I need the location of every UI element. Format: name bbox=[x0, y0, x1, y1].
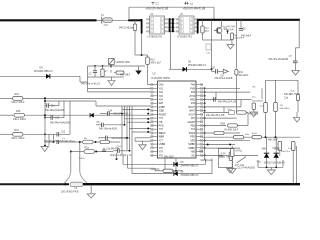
wire C10 right bbox=[49, 105, 60, 107]
wire D5 feed corner bbox=[122, 155, 124, 164]
node left bus dot2 bbox=[44, 114, 46, 116]
svg-text:940-4Pa-0%A&S/B: 940-4Pa-0%A&S/B bbox=[269, 58, 289, 61]
resistor R17 bbox=[163, 169, 173, 172]
node R13 bus dot bbox=[235, 19, 237, 21]
pin U2 left 16 bbox=[151, 139, 158, 141]
svg-text:Y0a: Y0a bbox=[257, 161, 262, 163]
shunt reference U4 LM4040 bbox=[109, 59, 115, 67]
pin U2 right 3 bbox=[196, 91, 203, 93]
svg-text:2: 2 bbox=[181, 23, 182, 25]
wire bold feed into U1 pins bbox=[129, 19, 142, 21]
svg-text:Y76: Y76 bbox=[159, 129, 164, 131]
resistor R25 far right bbox=[296, 95, 299, 101]
wire R23 down to bus bbox=[279, 151, 281, 157]
svg-text:C1a: C1a bbox=[199, 150, 204, 152]
svg-text:6: 6 bbox=[190, 27, 191, 29]
svg-text:4(L.5/B): 4(L.5/B) bbox=[223, 156, 231, 158]
wire C11 right bbox=[53, 117, 64, 119]
pin U2 left 9 bbox=[151, 113, 158, 115]
wire D6 feed corner bbox=[131, 158, 133, 174]
svg-text:1: 1 bbox=[151, 19, 152, 21]
svg-text:+5V0 (P) 494-R.J/B: +5V0 (P) 494-R.J/B bbox=[183, 6, 206, 10]
node left bus dot3 bbox=[44, 117, 46, 119]
wire middle bracket bbox=[127, 156, 129, 168]
wire +24V right thick bus bbox=[197, 19, 300, 21]
wire D5 row bbox=[123, 163, 173, 165]
svg-text:940-4Pa-0%A&S/B: 940-4Pa-0%A&S/B bbox=[45, 109, 65, 112]
svg-text:Y78: Y78 bbox=[159, 148, 164, 150]
pin U2 left 2 bbox=[151, 87, 158, 89]
wire opto1 drop A bbox=[134, 31, 136, 56]
diode D3 bbox=[183, 67, 187, 72]
diode D9 zener up bbox=[266, 150, 268, 153]
wire row to IC pin 14 bbox=[138, 140, 151, 142]
svg-text:940-4Pa-0-A&S/B: 940-4Pa-0-A&S/B bbox=[215, 77, 233, 80]
wire drop to C6 bbox=[240, 20, 242, 28]
pin U2 right 13 bbox=[196, 128, 203, 130]
svg-text:Ra 940-1.8LF: Ra 940-1.8LF bbox=[225, 129, 239, 131]
svg-text:1L(B): 1L(B) bbox=[221, 153, 226, 155]
pin U2 left 17 bbox=[151, 143, 158, 145]
wire right bus vertical a bbox=[204, 88, 206, 160]
svg-text:940-16B.a: 940-16B.a bbox=[280, 108, 291, 110]
ground right mid bbox=[250, 112, 257, 117]
svg-text:YB0: YB0 bbox=[191, 152, 196, 154]
pin U2 left 11 bbox=[151, 121, 158, 123]
pin U2 left 13 bbox=[151, 128, 158, 130]
pin U2 left 12 bbox=[151, 125, 158, 127]
svg-text:WBUF: WBUF bbox=[159, 133, 166, 135]
pin U2 left 7 bbox=[151, 106, 158, 108]
node dot opto row 3 bbox=[169, 26, 171, 28]
wire fuse to node bbox=[113, 19, 129, 21]
ground snubber bbox=[227, 168, 234, 173]
wire right row 9 bbox=[203, 136, 300, 138]
pin U2 right 9 bbox=[196, 113, 203, 115]
wire main drop to C8 net bbox=[211, 20, 213, 70]
resistor R8 bbox=[116, 71, 124, 74]
wire C7 to ground bbox=[295, 63, 297, 71]
wire right row 8 bbox=[203, 132, 240, 134]
wire snubber box bbox=[218, 149, 232, 168]
node junction column into IC bbox=[147, 109, 149, 111]
wire battery negative thick bus bbox=[83, 183, 300, 185]
svg-text:940-16B.a: 940-16B.a bbox=[248, 114, 259, 116]
diode D8 clamp bbox=[90, 113, 94, 118]
diode D7 small bbox=[223, 26, 236, 34]
wire mid vertical a bbox=[121, 106, 123, 155]
svg-text:940-HMLF: 940-HMLF bbox=[290, 93, 301, 95]
wire 24V input row from left bbox=[0, 75, 46, 77]
svg-text:PB1: PB1 bbox=[191, 126, 196, 128]
svg-text:(Y2B): (Y2B) bbox=[274, 148, 280, 150]
pin U2 right 14 bbox=[196, 132, 203, 134]
node row B start dot bbox=[70, 151, 72, 153]
node vref rail dot 1 bbox=[94, 65, 96, 67]
capacitor C2 (top tiny) bbox=[152, 2, 160, 5]
wire right row 5 bbox=[203, 112, 229, 114]
svg-text:R10: R10 bbox=[151, 59, 156, 61]
capacitor C9 bbox=[214, 97, 216, 101]
wire R26 top bbox=[231, 146, 233, 149]
resistor R11 vertical bbox=[252, 103, 255, 110]
svg-text:ALERT: ALERT bbox=[188, 121, 196, 124]
resistor R15 bbox=[14, 113, 25, 117]
pin U2 right 1 bbox=[196, 84, 203, 86]
wire R18 right bbox=[238, 125, 249, 127]
svg-text:YT0: YT0 bbox=[159, 155, 164, 157]
wire D6 right run bbox=[178, 173, 212, 175]
capacitor C5 bbox=[96, 124, 102, 126]
wire ladder stub right bbox=[45, 141, 54, 143]
wire RX2 run bbox=[23, 133, 45, 135]
wire right row 2 bbox=[203, 91, 250, 93]
svg-text:SMBD: SMBD bbox=[188, 144, 195, 146]
node RX0 tap bbox=[44, 97, 46, 99]
wire far top box rail bbox=[266, 79, 299, 81]
capacitor C6 bbox=[239, 29, 243, 31]
svg-text:940-1Pa mi 4L1.8: 940-1Pa mi 4L1.8 bbox=[81, 83, 101, 86]
svg-text:3: 3 bbox=[181, 27, 182, 29]
svg-text:940-1.8LF: 940-1.8LF bbox=[151, 63, 162, 65]
wire row to IC pin 9 bbox=[125, 118, 151, 120]
node bottom-left tap bbox=[116, 158, 118, 160]
wire right row 7 bbox=[203, 125, 226, 127]
pin U2 right 11 bbox=[196, 121, 203, 123]
svg-text:Da (40)(7)(B): Da (40)(7)(B) bbox=[223, 26, 236, 28]
svg-text:(Aa): (Aa) bbox=[205, 29, 209, 32]
wire R25 down bbox=[297, 101, 299, 106]
wire ladder tail b bbox=[53, 134, 55, 142]
svg-text:T.B: T.B bbox=[280, 105, 284, 107]
node junction column A between optos bbox=[169, 18, 171, 32]
wire R24 down to bus bbox=[292, 151, 294, 184]
wire vref bottom rail bbox=[88, 76, 116, 78]
svg-text:V8B: V8B bbox=[262, 148, 267, 150]
capacitor C19 box bbox=[229, 111, 235, 115]
node riser dot bbox=[213, 19, 215, 21]
node R17 dot bbox=[175, 170, 177, 172]
resistor R4 row A second bbox=[100, 140, 110, 143]
svg-text:R1B: R1B bbox=[221, 123, 226, 125]
wire row to IC pin 11 bbox=[130, 128, 151, 130]
pin U2 right 8 bbox=[196, 110, 203, 112]
svg-text:RXD2: RXD2 bbox=[189, 133, 196, 135]
wire vref to IC pin row bbox=[88, 88, 151, 90]
wire R6 top bbox=[231, 39, 233, 42]
svg-text:4(a): 4(a) bbox=[205, 28, 209, 30]
wire R5 to Q1 node bbox=[202, 33, 204, 40]
svg-text:BOUT: BOUT bbox=[189, 107, 196, 109]
svg-text:940-4Pa-46-A,3/B: 940-4Pa-46-A,3/B bbox=[206, 114, 225, 117]
wire Q1 emitter to D7 bbox=[221, 34, 223, 40]
pin U2 right 2 bbox=[196, 87, 203, 89]
wire diode pair bottom rail bbox=[258, 166, 283, 168]
wire mid vertical b bbox=[124, 106, 126, 125]
svg-text:200-JR BG-F4(T): 200-JR BG-F4(T) bbox=[61, 191, 79, 193]
svg-text:2A/T: 2A/T bbox=[104, 24, 109, 27]
svg-text:AXBP: AXBP bbox=[159, 106, 166, 109]
svg-text:7: 7 bbox=[190, 23, 191, 25]
capacitor C18 row A bbox=[57, 140, 59, 144]
wire left bus vertical bbox=[44, 98, 46, 145]
svg-text:RXD: RXD bbox=[159, 126, 164, 128]
wire U2 bottom drop a bbox=[164, 158, 166, 171]
label aux box C7a bbox=[206, 44, 211, 50]
pin U2 right 7 bbox=[196, 106, 203, 108]
svg-text:940-a8LF: 940-a8LF bbox=[239, 75, 249, 77]
pin U2 right 20 bbox=[196, 154, 203, 156]
pin U2 right 12 bbox=[196, 125, 203, 127]
wire inter-opto row 2 bbox=[169, 22, 176, 24]
svg-text:8: 8 bbox=[161, 19, 162, 21]
resistor R21 vertical far bbox=[274, 103, 278, 112]
pin U2 left 18 bbox=[151, 147, 158, 149]
pin U2 left 3 bbox=[151, 91, 158, 93]
resistor R9 hung from bus bbox=[134, 20, 136, 24]
pin U2 right 16 bbox=[196, 139, 203, 141]
net arrow VCC out bbox=[223, 69, 228, 73]
node vref rail dot 3 bbox=[110, 65, 112, 67]
wire opto junction drop to D3 row bbox=[170, 32, 172, 69]
wire mid rail riser bbox=[95, 101, 97, 106]
op-amp U1 optocoupler LTV826 bbox=[146, 16, 168, 34]
svg-text:NC: NC bbox=[192, 155, 196, 157]
svg-text:Y01: Y01 bbox=[159, 88, 164, 90]
svg-text:C14: C14 bbox=[108, 110, 113, 112]
svg-text:SPD: SPD bbox=[190, 140, 195, 142]
resistor R26 vertical bbox=[230, 149, 234, 157]
svg-text:940-a: 940-a bbox=[79, 158, 85, 160]
wire U3 pin junction bar to right bus bbox=[197, 19, 199, 34]
svg-text:PVB: PVB bbox=[190, 88, 195, 90]
svg-text:C1a: C1a bbox=[284, 97, 289, 99]
resistor R19 in box bbox=[229, 152, 232, 161]
wire Q1 collector up bbox=[221, 20, 223, 27]
wire D5 right run bbox=[178, 163, 206, 165]
svg-text:940-1KLF: 940-1KLF bbox=[164, 156, 175, 158]
node junction column right of U2 bbox=[204, 87, 206, 89]
resistor R10 bbox=[142, 54, 148, 56]
svg-text:940-1Pa-4a-A2/B: 940-1Pa-4a-A2/B bbox=[99, 128, 117, 131]
svg-text:/CBE: /CBE bbox=[159, 111, 165, 113]
wire far verticals bbox=[265, 113, 267, 138]
node stem dot bbox=[79, 141, 81, 143]
ground diode pair arrow bbox=[267, 170, 275, 175]
svg-text:/YB: /YB bbox=[159, 122, 163, 124]
node junction bus tap C6 bbox=[240, 19, 242, 21]
node D3 net dot bbox=[211, 68, 213, 70]
capacitor C17 bbox=[103, 148, 105, 151]
wire ladder top rail bbox=[45, 100, 96, 102]
pin U2 right 10 bbox=[196, 117, 203, 119]
svg-text:R13: R13 bbox=[239, 72, 244, 74]
wire Q1 base row bbox=[203, 39, 218, 41]
ground vref bottom arrow bbox=[108, 81, 115, 86]
wire RX1 run bbox=[25, 114, 90, 116]
svg-text:C12: C12 bbox=[61, 132, 66, 134]
svg-text:940-4Pa-4%A&S/B: 940-4Pa-4%A&S/B bbox=[50, 121, 70, 124]
svg-text:940-1KLF: 940-1KLF bbox=[268, 140, 279, 142]
wire C5 right bbox=[103, 124, 124, 126]
wire U1 pin junction bar bbox=[141, 19, 143, 34]
node ladder top dot bbox=[44, 100, 46, 102]
svg-text:5: 5 bbox=[190, 31, 191, 33]
resistor R23 vertical bbox=[278, 142, 282, 151]
svg-text:2: 2 bbox=[151, 23, 152, 25]
wire far right down to bus bbox=[296, 146, 298, 183]
resistor R16 bbox=[13, 97, 24, 101]
svg-text:ZH44RS-NB5-C3: ZH44RS-NB5-C3 bbox=[181, 166, 199, 168]
node junction at +5V rail tap bbox=[128, 19, 130, 21]
node ladder stub dot bbox=[53, 141, 55, 143]
wire D3 cathode run bbox=[187, 68, 212, 70]
svg-text:940-4Pa-23-A,3/B: 940-4Pa-23-A,3/B bbox=[218, 101, 237, 104]
wire corner down into regulator bbox=[79, 76, 81, 82]
svg-text:PPD: PPD bbox=[190, 137, 195, 139]
wire row to IC pin 12 bbox=[132, 131, 151, 133]
svg-text:940-2 (A&S)a: 940-2 (A&S)a bbox=[119, 26, 134, 29]
wire row A bbox=[59, 141, 83, 143]
fuse F2 bbox=[70, 182, 83, 190]
wire bottom-left tap stub bbox=[116, 153, 118, 159]
wire vref bottom rail extension bbox=[115, 76, 124, 78]
svg-text:Y75: Y75 bbox=[159, 118, 164, 120]
svg-text:Y03: Y03 bbox=[159, 96, 164, 98]
wire +5V0 label rail bbox=[129, 6, 214, 8]
resistor R28 on rail bbox=[233, 136, 244, 139]
capacitor C10 bbox=[45, 105, 47, 107]
node bus earth tap bbox=[87, 183, 89, 185]
wire opto1 drop B bbox=[141, 34, 143, 56]
wire R6 to ground bbox=[231, 40, 233, 45]
pin U2 right 18 bbox=[196, 147, 203, 149]
pin U2 left 5 bbox=[151, 99, 158, 101]
node diode rail dots bbox=[266, 166, 268, 168]
svg-text:(Pa)L(7a 4(7)(4)-1.7a: (Pa)L(7a 4(7)(4)-1.7a bbox=[110, 155, 132, 157]
wire C12 right bbox=[59, 133, 70, 135]
svg-text:C13 0-4%A&S/B: C13 0-4%A&S/B bbox=[238, 167, 255, 170]
svg-text:IC-RQ5Z1-50PW: IC-RQ5Z1-50PW bbox=[151, 77, 171, 80]
svg-text:4: 4 bbox=[181, 31, 182, 33]
svg-text:P46: P46 bbox=[191, 103, 196, 105]
svg-text:5: 5 bbox=[161, 31, 162, 33]
wire riser right of U2 opto bbox=[213, 7, 215, 20]
svg-text:R15: R15 bbox=[16, 110, 21, 113]
svg-text:XOUT: XOUT bbox=[189, 114, 196, 116]
capacitor C15 bbox=[98, 137, 106, 139]
svg-text:4: 4 bbox=[151, 31, 152, 33]
wire bottom right riser to bus bbox=[257, 160, 259, 167]
diode D4 bbox=[46, 74, 50, 79]
node dot opto row 1 bbox=[169, 18, 171, 20]
node junction column B between optos bbox=[172, 18, 174, 32]
svg-text:ZH44RS-NB5-C3: ZH44RS-NB5-C3 bbox=[181, 175, 199, 177]
resistor R3 row A bbox=[83, 140, 94, 144]
svg-text:6: 6 bbox=[161, 27, 162, 29]
wire right row 4 bbox=[203, 106, 241, 108]
svg-text:RESET: RESET bbox=[159, 114, 167, 116]
svg-text:RXD: RXD bbox=[190, 100, 195, 102]
svg-text:(MT)(CT)(A) A(B)-E3: (MT)(CT)(A) A(B)-E3 bbox=[264, 162, 285, 165]
svg-text:940-2HLF: 940-2HLF bbox=[241, 36, 252, 38]
wire right riser x241 bbox=[240, 100, 242, 107]
capacitor C16 bbox=[219, 155, 223, 157]
node junction bus tap main drop bbox=[210, 19, 212, 21]
svg-text:Y77: Y77 bbox=[159, 140, 164, 142]
svg-text:Y79: Y79 bbox=[159, 152, 164, 154]
pin U2 left 4 bbox=[151, 95, 158, 97]
resistor R12 horizontal bbox=[236, 111, 246, 114]
wire R2 right bbox=[95, 151, 114, 153]
wire earth stub bbox=[90, 185, 92, 194]
resistor R5 bbox=[201, 26, 204, 33]
wire funnel stem right from row A bbox=[79, 142, 81, 171]
svg-text:A1.B: A1.B bbox=[252, 132, 257, 135]
pin U2 left 20 bbox=[151, 154, 158, 156]
wire row to IC pin 10 bbox=[127, 121, 151, 123]
pin U2 right 17 bbox=[196, 143, 203, 145]
pin U2 left 1 bbox=[151, 84, 158, 86]
svg-text:LTV826S-TA1: LTV826S-TA1 bbox=[177, 35, 192, 38]
wire mid vertical c bbox=[126, 106, 128, 150]
svg-text:+5V0 (P) 494-R.J/B: +5V0 (P) 494-R.J/B bbox=[146, 6, 169, 10]
capacitor C8 bbox=[216, 69, 218, 74]
capacitor C2b tiny symbol bbox=[184, 2, 194, 6]
node RX2 end dot bbox=[44, 133, 46, 135]
svg-text:3: 3 bbox=[151, 27, 152, 29]
svg-text:940-2 448-F: 940-2 448-F bbox=[12, 101, 26, 104]
svg-text:940-(1)(B): 940-(1)(B) bbox=[224, 29, 234, 31]
ground C7 bbox=[292, 71, 300, 76]
transistor Q1 bbox=[214, 27, 227, 34]
ground mid maze bbox=[139, 145, 147, 150]
wire inter-opto row 4 bbox=[169, 30, 176, 32]
wire diode pair bottoms bbox=[266, 158, 268, 168]
svg-text:C1a 940-1Pa: C1a 940-1Pa bbox=[106, 149, 120, 151]
wire mid top rail bbox=[96, 105, 151, 107]
wire ladder to ground bbox=[44, 145, 46, 147]
wire right row 12 bbox=[203, 155, 258, 157]
svg-text:940-C5.a: 940-C5.a bbox=[281, 151, 291, 153]
wire C4 right bbox=[119, 150, 129, 152]
wire riser C7 from bus at right edge bbox=[298, 20, 300, 48]
node ladder bottom dot bbox=[44, 145, 46, 147]
svg-text:CN0: CN0 bbox=[159, 85, 164, 87]
diode D10 zener up bbox=[275, 150, 277, 153]
svg-text:940-2HLF: 940-2HLF bbox=[120, 74, 131, 76]
pin U2 right 4 bbox=[196, 95, 203, 97]
resistor R18 horizontal bbox=[228, 124, 238, 127]
ground vref bbox=[138, 66, 140, 71]
svg-text:8: 8 bbox=[190, 19, 191, 21]
svg-text:WBR: WBR bbox=[159, 137, 165, 139]
wire right row 10 bbox=[203, 140, 250, 142]
wire mid right vertical to bottom bbox=[261, 88, 263, 99]
wire RX0 run to IC bbox=[23, 97, 151, 99]
wire inter-opto row 3 bbox=[169, 26, 176, 28]
resistor R2 bbox=[84, 150, 95, 154]
svg-text:940-(4B)-A: 940-(4B)-A bbox=[252, 99, 263, 102]
svg-text:Y02: Y02 bbox=[159, 92, 164, 94]
wire row A right bbox=[93, 141, 120, 143]
node far dots bbox=[265, 136, 267, 138]
wire inter-opto row 1 bbox=[169, 18, 176, 20]
wire snubber ground stub bbox=[229, 166, 231, 169]
pin U2 left 14 bbox=[151, 132, 158, 134]
svg-text:LM4040 V250: LM4040 V250 bbox=[116, 62, 131, 64]
svg-text:TX2: TX2 bbox=[191, 129, 196, 131]
